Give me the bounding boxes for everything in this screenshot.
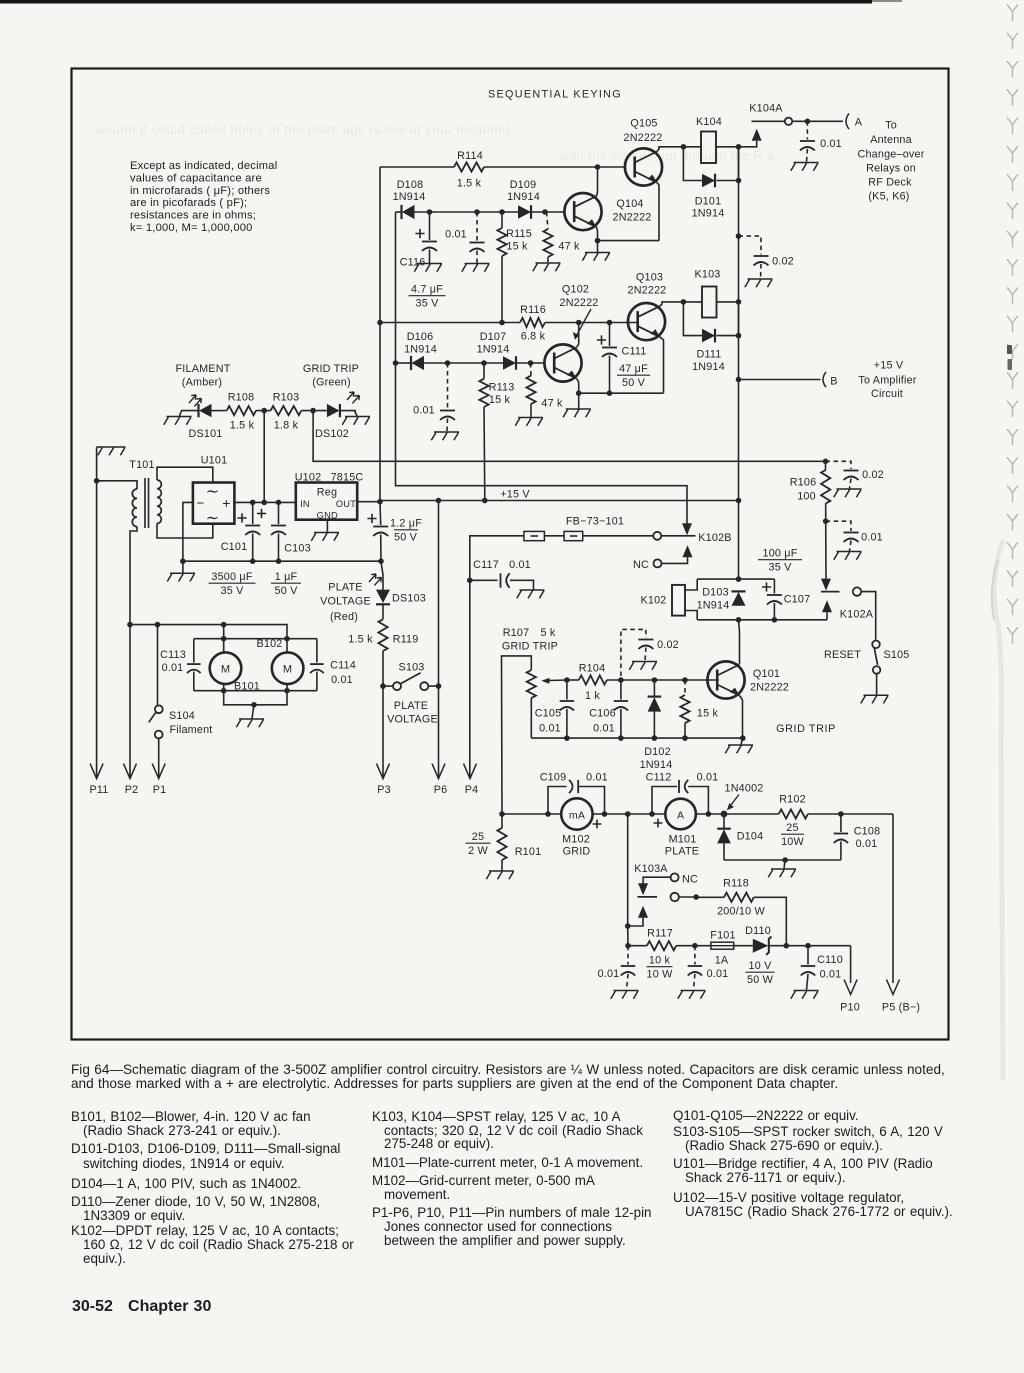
node C112 right junction bbox=[706, 811, 712, 817]
relay coil K103 bbox=[683, 301, 702, 303]
blower motor B102 bbox=[286, 639, 288, 653]
svg-text:10W: 10W bbox=[781, 836, 804, 848]
svg-text:P3: P3 bbox=[377, 784, 391, 796]
node filament LED junction bbox=[261, 408, 267, 414]
resistor R101 bbox=[497, 828, 506, 860]
svg-text:K104: K104 bbox=[696, 116, 722, 128]
wire R114 row bbox=[380, 166, 454, 168]
wire relay supply vertical bbox=[738, 147, 740, 302]
potentiometer R107 bbox=[502, 656, 532, 814]
svg-text:P11: P11 bbox=[89, 784, 108, 796]
wire negative bus bbox=[183, 560, 381, 562]
resistor R106 bbox=[825, 461, 827, 470]
node B102 bottom bbox=[284, 688, 290, 694]
node D111 cathode junction bbox=[736, 333, 742, 339]
svg-text:+15 V: +15 V bbox=[874, 360, 904, 372]
wire emitter bus bbox=[598, 240, 660, 242]
svg-text:2N2222: 2N2222 bbox=[559, 297, 598, 309]
wire secondary top lead bbox=[157, 467, 213, 482]
node grid line junction bbox=[499, 811, 505, 817]
svg-text:1N914: 1N914 bbox=[404, 344, 437, 356]
node R113 top junction bbox=[481, 360, 487, 366]
svg-text:FB−73−101: FB−73−101 bbox=[566, 516, 624, 528]
svg-text:(Amber): (Amber) bbox=[182, 377, 222, 389]
resistor R108 bbox=[227, 406, 256, 415]
wire U101 negative lead bbox=[183, 502, 193, 561]
svg-text:R103: R103 bbox=[273, 392, 300, 404]
svg-text:K102A: K102A bbox=[840, 609, 874, 621]
node 0.02 junction bbox=[736, 233, 742, 239]
schematic border frame bbox=[72, 69, 949, 1040]
svg-text:A: A bbox=[677, 810, 684, 822]
ground under Q104 emitter bbox=[582, 253, 610, 261]
ground under 0.01 bbox=[834, 552, 862, 560]
node B junction bbox=[736, 377, 742, 383]
svg-text:Q103: Q103 bbox=[636, 272, 663, 284]
resistor R119 bbox=[382, 604, 384, 619]
connector pin P2 bbox=[124, 764, 137, 779]
transistor Q102 bbox=[544, 344, 581, 381]
ground at return bus bbox=[768, 869, 796, 877]
svg-text:K103A: K103A bbox=[634, 863, 668, 875]
svg-text:GND: GND bbox=[317, 511, 338, 521]
svg-text:k= 1,000, M= 1,000,000: k= 1,000, M= 1,000,000 bbox=[130, 222, 253, 234]
wire P5 line bbox=[892, 814, 894, 983]
node 15k bottom bbox=[682, 735, 688, 741]
svg-text:IN: IN bbox=[300, 499, 310, 509]
svg-text:Filament: Filament bbox=[169, 724, 212, 736]
node K104 right junction bbox=[736, 144, 742, 150]
svg-text:0.01: 0.01 bbox=[509, 559, 531, 571]
wire P4 line bbox=[469, 580, 471, 777]
diode D108 bbox=[400, 205, 402, 219]
svg-text:Q105: Q105 bbox=[630, 118, 657, 130]
diode D101 bbox=[683, 147, 702, 181]
capacitor C114 bbox=[316, 639, 318, 663]
svg-text:D110: D110 bbox=[745, 925, 771, 937]
node +15V output junction bbox=[377, 499, 383, 505]
node zener output junction bbox=[784, 943, 790, 949]
svg-text:RF Deck: RF Deck bbox=[868, 177, 912, 189]
svg-text:4.7 μF: 4.7 μF bbox=[411, 284, 443, 296]
svg-text:in microfarads ( μF); others: in microfarads ( μF); others bbox=[130, 185, 270, 197]
capacitor 0.01 at K104A bbox=[806, 121, 808, 139]
svg-text:1 μF: 1 μF bbox=[275, 571, 298, 583]
svg-text:D107: D107 bbox=[480, 331, 507, 343]
svg-text:50 V: 50 V bbox=[394, 532, 418, 544]
wire blower bottom rail bbox=[194, 690, 317, 692]
connector pin P4 bbox=[464, 764, 477, 779]
fuse F101 bbox=[695, 945, 753, 947]
svg-text:−: − bbox=[196, 496, 204, 511]
node B101 bottom bbox=[221, 688, 227, 694]
wire blower top bus bbox=[130, 625, 287, 639]
svg-text:1N914: 1N914 bbox=[393, 191, 426, 203]
svg-text:S103: S103 bbox=[398, 662, 424, 674]
svg-text:1N914: 1N914 bbox=[507, 191, 540, 203]
capacitor C113 bbox=[193, 639, 195, 663]
svg-text:0.01: 0.01 bbox=[820, 138, 842, 150]
resistor R118 bbox=[696, 896, 724, 898]
capacitor 0.02 disc (dashed) bbox=[621, 629, 646, 676]
diode D109 bbox=[518, 205, 531, 219]
wire K103A to R117 bbox=[627, 926, 629, 946]
node C111 bottom junction bbox=[607, 390, 613, 396]
node 0.01 junction bbox=[445, 360, 451, 366]
capacitor 0.01 disc (dashed) bbox=[826, 521, 851, 531]
relay contact K102B bbox=[682, 523, 692, 535]
svg-text:Reg: Reg bbox=[317, 487, 337, 499]
wire grid trip row bbox=[567, 679, 579, 681]
ghost bleed-through text bbox=[94, 122, 776, 163]
capacitor C117 bbox=[470, 579, 498, 581]
svg-text:3500 μF: 3500 μF bbox=[211, 571, 252, 583]
svg-text:1N4002: 1N4002 bbox=[724, 783, 763, 795]
node C106 bottom bbox=[618, 735, 624, 741]
svg-text:M102: M102 bbox=[562, 834, 590, 846]
svg-text:C114: C114 bbox=[330, 660, 356, 672]
relay contact K103A blade bbox=[638, 896, 658, 898]
parts list column 1 bbox=[71, 1109, 311, 1124]
svg-text:S105: S105 bbox=[883, 649, 909, 661]
ground at negative bus bbox=[167, 573, 195, 581]
meter M101 bbox=[665, 799, 696, 830]
svg-text:PLATE: PLATE bbox=[394, 700, 428, 712]
svg-text:1N914: 1N914 bbox=[640, 759, 673, 771]
svg-text:C106: C106 bbox=[589, 708, 616, 720]
switch S104 bbox=[157, 625, 159, 706]
parts list column 3 bbox=[673, 1108, 859, 1123]
svg-text:with the signals run through t: with the signals run through the R & bbox=[559, 149, 776, 163]
capacitor C108 bbox=[840, 814, 842, 832]
node R115 bottom junction bbox=[499, 320, 505, 326]
wire Q101 collector line bbox=[739, 620, 740, 665]
svg-text:P5 (B−): P5 (B−) bbox=[882, 1002, 920, 1014]
node Q104 collector junction bbox=[595, 164, 601, 170]
svg-text:PLATE: PLATE bbox=[665, 846, 699, 858]
svg-text:0.02: 0.02 bbox=[772, 256, 794, 268]
node K103 right junction bbox=[736, 299, 742, 305]
polarity label + bbox=[593, 820, 602, 829]
capacitor C107 bbox=[773, 579, 775, 593]
svg-text:R107: R107 bbox=[503, 627, 530, 639]
svg-text:(K5, K6): (K5, K6) bbox=[868, 191, 909, 203]
svg-text:100: 100 bbox=[797, 491, 816, 503]
wire +15V line bbox=[380, 500, 739, 502]
svg-text:C101: C101 bbox=[221, 541, 248, 553]
svg-text:GRID: GRID bbox=[563, 846, 591, 858]
wire P6 line bbox=[438, 686, 440, 777]
wire secondary bottom lead bbox=[157, 524, 213, 539]
svg-text:2N2222: 2N2222 bbox=[623, 132, 662, 144]
wire primary bottom lead bbox=[130, 527, 137, 625]
capacitor C110 bbox=[807, 946, 809, 965]
svg-text:NC: NC bbox=[633, 559, 649, 571]
svg-text:C105: C105 bbox=[535, 708, 562, 720]
wire relay supply to B bbox=[738, 302, 740, 579]
node C117 junction bbox=[467, 578, 473, 584]
capacitor C112 bbox=[652, 787, 677, 815]
wiper arrow R107 bbox=[546, 679, 567, 682]
svg-text:C107: C107 bbox=[784, 594, 811, 606]
resistor 47 k (dashed lead) bbox=[530, 363, 533, 376]
svg-text:10 W: 10 W bbox=[647, 969, 674, 981]
ground under 0.01 bbox=[611, 991, 639, 999]
svg-text:GRID TRIP: GRID TRIP bbox=[502, 641, 558, 653]
wire grid return bus bbox=[531, 737, 743, 739]
svg-text:50 V: 50 V bbox=[274, 585, 298, 597]
svg-text:5 k: 5 k bbox=[540, 627, 555, 639]
wire K102 bottom bus bbox=[697, 619, 827, 621]
svg-text:P2: P2 bbox=[125, 784, 139, 796]
svg-text:1.5 k: 1.5 k bbox=[348, 634, 373, 646]
svg-text:To Amplifier: To Amplifier bbox=[858, 375, 916, 387]
svg-text:D108: D108 bbox=[397, 179, 424, 191]
ground under 0.01 bbox=[791, 163, 819, 171]
svg-text:T101: T101 bbox=[129, 459, 154, 471]
svg-text:∼: ∼ bbox=[206, 484, 220, 501]
ground under R101 bbox=[486, 871, 514, 879]
svg-text:P6: P6 bbox=[434, 784, 448, 796]
svg-text:0.01: 0.01 bbox=[413, 405, 435, 417]
relay contact K104A bbox=[739, 141, 757, 147]
svg-text:Except as indicated, decimal: Except as indicated, decimal bbox=[130, 160, 277, 172]
meter M102 bbox=[561, 798, 592, 829]
svg-text:GRID TRIP: GRID TRIP bbox=[303, 363, 359, 375]
svg-text:D103: D103 bbox=[702, 587, 729, 599]
capacitor C106 bbox=[620, 680, 622, 700]
wire primary top lead bbox=[96, 447, 98, 481]
resistor R103 bbox=[271, 406, 302, 415]
node B101 feed junction bbox=[221, 622, 227, 628]
diode D102 bbox=[653, 680, 655, 697]
wire D104 C108 return bus bbox=[724, 859, 841, 861]
svg-text:0.01: 0.01 bbox=[598, 968, 620, 980]
svg-text:Circuit: Circuit bbox=[871, 388, 903, 400]
svg-text:1N914: 1N914 bbox=[697, 600, 730, 612]
svg-text:+15 V: +15 V bbox=[500, 489, 530, 501]
node D108-C116 junction bbox=[427, 209, 433, 215]
wire P2 line bbox=[129, 625, 131, 777]
node 0.01 junction bbox=[474, 209, 480, 215]
transistor Q104 bbox=[564, 193, 601, 230]
svg-text:1.2 μF: 1.2 μF bbox=[390, 518, 422, 530]
svg-text:0.01: 0.01 bbox=[162, 662, 184, 674]
node Q101 emitter junction bbox=[740, 735, 746, 741]
svg-text:2N2222: 2N2222 bbox=[612, 212, 651, 224]
capacitor 1.2 uF bbox=[379, 502, 382, 525]
regulator U102 bbox=[296, 483, 357, 520]
connector pin P3 bbox=[377, 764, 390, 779]
resistor 15 k (dashed lead) bbox=[684, 680, 686, 695]
wire R116 row bbox=[380, 322, 520, 324]
polarity label + bbox=[654, 819, 663, 828]
svg-text:Q104: Q104 bbox=[616, 198, 643, 210]
wire Q102 collector bbox=[577, 323, 579, 348]
svg-text:R114: R114 bbox=[457, 150, 483, 162]
ground under U102 bbox=[311, 533, 339, 541]
pointer arrow to Q102 bbox=[575, 309, 591, 339]
svg-text:C108: C108 bbox=[854, 826, 881, 838]
wire R118 output bbox=[754, 897, 787, 945]
svg-text:D104: D104 bbox=[737, 831, 764, 843]
svg-text:15 k: 15 k bbox=[489, 394, 511, 406]
ground under 0.01 bbox=[462, 264, 490, 272]
node C107 bottom junction bbox=[772, 617, 778, 623]
wire R108-R103 bbox=[256, 410, 271, 412]
wire blower ground loop bbox=[224, 691, 287, 705]
node D102 junction bbox=[652, 677, 658, 683]
svg-text:15 k: 15 k bbox=[697, 708, 719, 720]
svg-text:R106: R106 bbox=[790, 477, 817, 489]
svg-text:DS102: DS102 bbox=[315, 428, 349, 440]
wire beads to C117 node bbox=[470, 536, 524, 581]
svg-text:OUT: OUT bbox=[336, 499, 356, 509]
node R106 bottom junction bbox=[823, 518, 829, 524]
svg-text:U102: U102 bbox=[295, 472, 322, 484]
wire diode chain vertical bbox=[395, 212, 397, 363]
node C109 left junction bbox=[545, 811, 551, 817]
svg-text:P4: P4 bbox=[465, 784, 479, 796]
node +15V rail R116 junction bbox=[377, 320, 383, 326]
node C105 bottom bbox=[564, 735, 570, 741]
diode D107 bbox=[503, 356, 516, 370]
svg-text:D102: D102 bbox=[644, 746, 671, 758]
svg-text:A: A bbox=[855, 117, 863, 129]
node D103 bottom junction bbox=[736, 617, 742, 623]
node DS103 junction bbox=[378, 558, 384, 564]
capacitor C116 bbox=[429, 212, 431, 240]
node return ground junction bbox=[782, 857, 788, 863]
wire grid meter row bbox=[502, 813, 561, 815]
diode D111 bbox=[683, 302, 702, 336]
node Q102 collector junction bbox=[576, 320, 582, 326]
node B102 top junction bbox=[284, 636, 290, 642]
relay contact K103A arm bbox=[638, 906, 648, 918]
connector A bbox=[846, 114, 849, 130]
svg-text:SEQUENTIAL KEYING: SEQUENTIAL KEYING bbox=[488, 89, 622, 101]
svg-text:R101: R101 bbox=[515, 846, 542, 858]
svg-text:0.01: 0.01 bbox=[586, 772, 608, 784]
wire blower second rail bbox=[194, 638, 317, 640]
transistor Q103 bbox=[628, 303, 665, 340]
wire D110 output bbox=[769, 945, 851, 947]
binding marks bbox=[1007, 5, 1018, 644]
svg-text:M: M bbox=[283, 664, 292, 676]
svg-text:values of capacitance are: values of capacitance are bbox=[130, 172, 262, 184]
svg-text:0.01: 0.01 bbox=[539, 723, 561, 735]
node R118 junction bbox=[693, 894, 699, 900]
wire between beads bbox=[544, 535, 564, 537]
wire R103-DS102 bbox=[301, 410, 327, 412]
svg-text:1.8 k: 1.8 k bbox=[274, 420, 299, 432]
svg-text:R115: R115 bbox=[506, 228, 532, 240]
diode D103 bbox=[732, 590, 746, 592]
node C105 junction bbox=[564, 677, 570, 683]
node S103 right junction bbox=[436, 683, 442, 689]
ground under 0.01 bbox=[678, 991, 706, 999]
svg-text:R104: R104 bbox=[579, 663, 606, 675]
svg-text:1A: 1A bbox=[715, 955, 729, 967]
svg-text:0.02: 0.02 bbox=[657, 639, 679, 651]
svg-text:VOLTAGE: VOLTAGE bbox=[320, 596, 371, 608]
svg-text:100 μF: 100 μF bbox=[762, 548, 797, 560]
resistor R104 bbox=[579, 675, 607, 684]
svg-text:S104: S104 bbox=[169, 710, 195, 722]
ground under 0.02 bbox=[834, 489, 862, 497]
ground under 0.02 bbox=[745, 279, 773, 287]
svg-text:(Green): (Green) bbox=[312, 377, 351, 389]
svg-text:resistances are in ohms;: resistances are in ohms; bbox=[130, 210, 256, 222]
node S103 supply junction bbox=[436, 498, 442, 504]
svg-text:B: B bbox=[830, 376, 837, 388]
capacitor 0.01 disc (dashed) at F101 bbox=[694, 946, 696, 965]
transformer T101 bbox=[132, 489, 137, 527]
svg-text:P1: P1 bbox=[153, 784, 167, 796]
svg-text:50 W: 50 W bbox=[747, 974, 774, 986]
LED DS103 bbox=[381, 561, 383, 589]
svg-text:K102: K102 bbox=[640, 595, 666, 607]
node K103A arm junction bbox=[625, 923, 631, 929]
ground under C110 bbox=[791, 991, 819, 999]
node C103 junction bbox=[276, 500, 282, 506]
svg-text:DS103: DS103 bbox=[392, 593, 426, 605]
svg-text:35 V: 35 V bbox=[220, 585, 244, 597]
svg-text:C103: C103 bbox=[284, 543, 311, 555]
svg-text:GRID TRIP: GRID TRIP bbox=[776, 723, 836, 735]
node C108 junction bbox=[838, 811, 844, 817]
wire P11 line bbox=[96, 481, 98, 777]
wire K102B to beads bbox=[661, 535, 682, 537]
node K103 left junction bbox=[681, 299, 687, 305]
capacitor 0.01 disc (dashed) bbox=[447, 363, 449, 409]
wire Q102 emitter bbox=[577, 379, 579, 394]
wire plate meter row bbox=[696, 813, 779, 815]
blower motor B101 bbox=[210, 652, 242, 684]
ground under blowers bbox=[236, 719, 264, 727]
note text block bbox=[130, 160, 277, 234]
svg-text:C109: C109 bbox=[540, 772, 567, 784]
wire DS101 node to raw DC bus bbox=[263, 411, 265, 503]
node R117 left junction bbox=[625, 943, 631, 949]
wire P3 line bbox=[382, 686, 384, 777]
svg-text:6.8 k: 6.8 k bbox=[521, 331, 546, 343]
svg-text:PLATE: PLATE bbox=[328, 582, 362, 594]
LED DS101 bbox=[181, 410, 199, 412]
svg-text:50 V: 50 V bbox=[622, 377, 646, 389]
ground under Q101 bbox=[725, 745, 753, 753]
ferrite bead FB-73-101 bbox=[524, 531, 545, 540]
ground at C117 bbox=[517, 590, 545, 598]
node bus P2 junction bbox=[127, 622, 133, 628]
svg-text:0.01: 0.01 bbox=[707, 968, 729, 980]
svg-text:R117: R117 bbox=[647, 928, 673, 940]
svg-text:Q101: Q101 bbox=[753, 668, 780, 680]
zener diode D110 bbox=[753, 939, 769, 953]
svg-text:1N914: 1N914 bbox=[692, 208, 725, 220]
svg-text:47 μF: 47 μF bbox=[619, 363, 648, 375]
svg-text:C112: C112 bbox=[646, 772, 672, 784]
svg-text:10 V: 10 V bbox=[748, 960, 772, 972]
switch S103 bbox=[383, 685, 393, 687]
wire R102 output bbox=[808, 813, 893, 815]
node D102 bottom bbox=[652, 735, 658, 741]
svg-text:R108: R108 bbox=[228, 392, 255, 404]
wire U101 positive lead bbox=[234, 501, 295, 503]
wire Q103 collector bbox=[660, 302, 683, 306]
svg-text:K103: K103 bbox=[694, 269, 720, 281]
resistor R114 bbox=[454, 162, 484, 171]
